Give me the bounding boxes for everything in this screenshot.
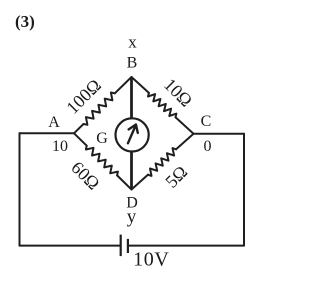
wire: D to resistor R4 bbox=[132, 175, 148, 190]
wire: right corner to node C bbox=[194, 133, 245, 135]
svg-text:5Ω: 5Ω bbox=[161, 162, 191, 192]
svg-text:10V: 10V bbox=[133, 248, 169, 270]
svg-text:B: B bbox=[127, 55, 138, 72]
svg-text:10: 10 bbox=[52, 138, 68, 155]
resistor R3 60ohm zigzag (A-D) bbox=[86, 146, 118, 176]
svg-text:0: 0 bbox=[204, 138, 212, 155]
wire: galvanometer branch B to D bbox=[130, 77, 133, 190]
svg-text:A: A bbox=[48, 114, 60, 131]
svg-text:y: y bbox=[127, 207, 137, 228]
wire: battery to bottom right corner bbox=[129, 245, 244, 247]
wire: A to resistor R1 bbox=[74, 124, 84, 133]
svg-text:C: C bbox=[201, 113, 212, 130]
svg-text:G: G bbox=[96, 130, 108, 147]
wire: resistor R1 to B bbox=[115, 77, 132, 93]
svg-text:60Ω: 60Ω bbox=[67, 157, 103, 193]
resistor R1 100ohm zigzag (A-B) bbox=[84, 93, 115, 125]
wire: left vertical bbox=[19, 133, 21, 245]
wire: resistor R2 to C bbox=[176, 117, 194, 133]
wire: right vertical bbox=[243, 134, 245, 246]
svg-text:x: x bbox=[128, 33, 137, 52]
resistor R2 10ohm zigzag (B-C) bbox=[148, 93, 176, 117]
wire: resistor R3 to D bbox=[117, 175, 131, 189]
wire: resistor R4 to C bbox=[176, 134, 193, 150]
battery B1 short plate bbox=[127, 239, 129, 253]
wire: B to resistor R2 bbox=[132, 77, 149, 93]
galvanometer G circle bbox=[116, 118, 149, 151]
wire: A to resistor R3 bbox=[74, 133, 87, 145]
galvanometer needle arrow bbox=[128, 125, 138, 144]
wire: bottom left to battery bbox=[20, 245, 120, 247]
svg-text:(3): (3) bbox=[15, 12, 35, 31]
wire: node A to left corner bbox=[20, 132, 75, 134]
resistor R4 5ohm zigzag (D-C) bbox=[148, 148, 176, 176]
battery B1 long plate bbox=[120, 235, 122, 257]
